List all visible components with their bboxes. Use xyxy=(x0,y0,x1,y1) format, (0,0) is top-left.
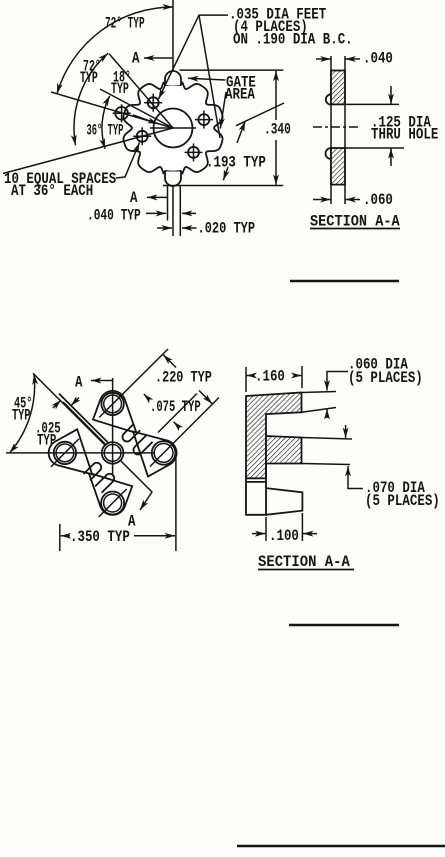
dim .040 TYP arrows xyxy=(146,212,166,214)
dim .020 TYP arrows xyxy=(157,227,172,229)
lower spine white xyxy=(246,464,266,515)
runner part centerline horizontal xyxy=(6,452,155,454)
dim .350 arrows xyxy=(61,535,70,537)
pad north xyxy=(93,391,137,433)
centerline vertical through round part xyxy=(172,0,174,236)
section arrow A bottom xyxy=(147,196,168,198)
svg-text:A: A xyxy=(132,50,140,68)
extension line for .193 steep xyxy=(199,15,220,138)
annotation line tooth bottom xyxy=(302,464,351,465)
runner hole circles (5 places) xyxy=(101,393,123,415)
diagonal centerline N circle / .220 ext 1 xyxy=(99,349,168,417)
extension line .193 upper xyxy=(236,103,284,126)
stem lines below part xyxy=(167,186,169,221)
dim .025 arrows xyxy=(71,398,79,406)
runner channel wall upper xyxy=(59,394,108,443)
fan line 196deg xyxy=(3,128,173,174)
svg-text:.060: .060 xyxy=(363,192,393,210)
36 deg arc xyxy=(102,96,110,149)
svg-text:TYP: TYP xyxy=(37,433,56,451)
dim .350 extension lines xyxy=(59,524,61,551)
section foot bump upper xyxy=(326,94,331,104)
slot U2 SW xyxy=(95,474,114,493)
leader .070 xyxy=(348,466,363,489)
dim .040 arrows xyxy=(316,58,331,60)
leader .035 DIA FEET xyxy=(159,15,229,99)
svg-text:72° TYP: 72° TYP xyxy=(105,14,145,32)
up arrow slot top xyxy=(326,409,328,418)
svg-text:TYP: TYP xyxy=(111,80,129,98)
gate tab bottom xyxy=(165,172,181,187)
rotated foot position circle on 163 deg line xyxy=(113,112,131,114)
dim .340 extension lines xyxy=(179,69,283,71)
separator line bottom xyxy=(237,845,445,847)
svg-text:THRU HOLE: THRU HOLE xyxy=(371,126,439,144)
gate area leader 2 xyxy=(220,92,226,129)
dim .160 arrows xyxy=(247,375,254,377)
section arrow A top (runner) xyxy=(91,380,113,382)
underline section a-a top xyxy=(310,228,400,230)
dim .220 arrows xyxy=(163,355,176,368)
svg-text:.350 TYP: .350 TYP xyxy=(70,529,130,547)
hole edge lines xyxy=(345,103,399,105)
72 deg arc inner xyxy=(74,53,108,145)
annotation line slot top xyxy=(302,408,337,413)
svg-text:.193 TYP: .193 TYP xyxy=(206,154,266,172)
svg-text:TYP: TYP xyxy=(80,69,98,87)
svg-text:TYP: TYP xyxy=(12,408,30,426)
svg-text:.020 TYP: .020 TYP xyxy=(198,220,256,238)
45 deg arc xyxy=(10,374,35,453)
svg-text:AREA: AREA xyxy=(225,86,255,104)
section A-A extension verticals xyxy=(330,56,332,204)
diagonal centerline S circle xyxy=(99,489,127,517)
dim .100 arrows xyxy=(252,533,265,535)
runner part centerline vertical xyxy=(112,378,114,476)
svg-text:.100: .100 xyxy=(269,528,299,546)
runner centerline NW-SE with section arrow A xyxy=(33,373,152,510)
dim .193 TYP line w arrows xyxy=(237,121,245,143)
hole arrows xyxy=(390,86,392,104)
center thru hole .125 DIA xyxy=(154,109,193,148)
svg-text:SECTION A-A: SECTION A-A xyxy=(310,214,400,231)
svg-text:.040: .040 xyxy=(363,50,393,68)
feet .035 DIA (4 places) with crosshairs xyxy=(195,119,213,121)
slot U1 SW xyxy=(84,463,102,481)
section hatched lower xyxy=(331,148,345,185)
svg-text:.040 TYP: .040 TYP xyxy=(87,208,141,225)
fan line 163deg xyxy=(51,92,173,128)
slot U1 NE xyxy=(122,424,140,442)
leader .060 xyxy=(327,372,348,391)
runner channel wall lower xyxy=(63,402,106,445)
svg-text:A: A xyxy=(75,374,83,392)
center crosshair horizontal xyxy=(150,127,196,129)
svg-text:A: A xyxy=(130,190,138,208)
svg-text:.160: .160 xyxy=(255,368,285,386)
section arrow A top xyxy=(144,57,173,59)
section hatched upper xyxy=(331,71,345,105)
section centerline dashed xyxy=(313,126,361,128)
dim .340 vertical line w arrows xyxy=(275,71,277,120)
gate tab top xyxy=(165,71,181,85)
slot U2 NE xyxy=(133,436,152,455)
annotation line top edge xyxy=(302,392,337,393)
svg-text:AT 36° EACH: AT 36° EACH xyxy=(11,183,93,201)
svg-text:(5 PLACES): (5 PLACES) xyxy=(348,370,423,388)
svg-text:(5 PLACES): (5 PLACES) xyxy=(365,493,440,511)
diagonal centerline W circle xyxy=(51,439,79,467)
dim .060 arrows xyxy=(313,199,331,201)
svg-text:A: A xyxy=(128,513,136,531)
pad east xyxy=(133,432,177,477)
svg-text:36° TYP: 36° TYP xyxy=(87,121,124,140)
dim .100 ext lines xyxy=(265,517,267,541)
dim .160 ext lines xyxy=(245,367,247,392)
svg-text:.075 TYP: .075 TYP xyxy=(150,399,201,417)
pad west xyxy=(49,429,93,474)
down arrow tooth top xyxy=(345,425,347,438)
underline section a-a bottom xyxy=(258,569,354,571)
72 deg arc outer xyxy=(57,7,173,94)
section foot bump lower xyxy=(326,148,332,159)
dim .075 arrows xyxy=(144,394,150,400)
bottom section hatched middle tooth xyxy=(266,436,302,464)
fan line 141deg xyxy=(109,54,173,128)
leader 18deg to center xyxy=(133,115,158,124)
tapered tooth xyxy=(266,488,302,515)
separator line 1 xyxy=(290,280,399,282)
leader 10 equal spaces xyxy=(116,143,140,179)
fan line 152deg xyxy=(100,89,173,128)
annotation line tooth top xyxy=(302,438,353,440)
svg-text:ON .190 DIA B.C.: ON .190 DIA B.C. xyxy=(233,31,353,49)
gate area leader 1 xyxy=(188,78,226,80)
round part body outline (10 scallops) xyxy=(123,83,222,173)
bottom section hatched spine and top tooth xyxy=(246,393,302,479)
svg-text:.340: .340 xyxy=(264,122,291,139)
pad south xyxy=(89,473,133,515)
diagonal centerline E circle / .220 ext 2 xyxy=(150,398,219,467)
svg-text:.220 TYP: .220 TYP xyxy=(155,369,212,387)
separator line 2 xyxy=(289,624,399,626)
dim .075 ext line xyxy=(158,394,197,433)
svg-text:SECTION A-A: SECTION A-A xyxy=(258,553,350,571)
